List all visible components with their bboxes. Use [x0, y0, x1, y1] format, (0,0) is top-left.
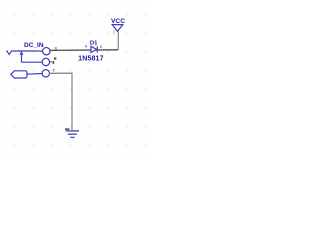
- connector J1 pin T (tip) circle: [42, 70, 49, 77]
- svg-text:K: K: [100, 45, 103, 49]
- diode D1 body: [91, 46, 97, 52]
- ground bar 1: [66, 130, 79, 132]
- grid dots (decorative): [14, 14, 147, 147]
- ground pin number 2 mark: [65, 128, 69, 129]
- svg-text:T: T: [53, 68, 56, 73]
- connector J1 switch arrow: [20, 51, 24, 55]
- connector J1 barrel jack sleeve contact (V notch): [6, 51, 12, 55]
- connector J1 tip contact (bullet shape): [11, 71, 27, 78]
- svg-text:VCC: VCC: [111, 18, 125, 25]
- svg-text:DC_IN: DC_IN: [24, 42, 44, 49]
- wire: vertical up to VCC power port: [117, 31, 119, 50]
- ground bar 3: [70, 136, 74, 138]
- connector J1 pin S (sleeve) circle: [43, 48, 50, 55]
- connector J1 pin 2 (switch) circle: [42, 58, 49, 65]
- svg-text:1: 1: [113, 30, 116, 35]
- pin label switch (tiny marks): [54, 57, 56, 59]
- svg-text:A: A: [85, 45, 88, 49]
- wire: jack tip pin to ground: [49, 73, 72, 130]
- svg-text:1N5817: 1N5817: [78, 55, 103, 63]
- diode D1 cathode bar: [96, 46, 98, 52]
- wire tip contact to pin: [27, 73, 42, 76]
- power port VCC triangle: [112, 25, 123, 32]
- wire: jack sleeve pin to diode anode and to VCC corner: [50, 49, 118, 52]
- ground bar 2: [68, 133, 77, 135]
- connector J1 sleeve line: [12, 50, 43, 52]
